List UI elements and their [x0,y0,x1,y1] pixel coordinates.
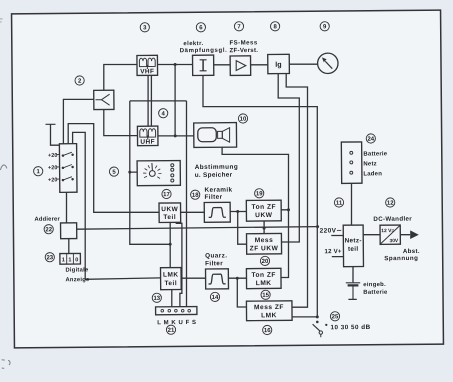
label 220V~ [320,227,343,234]
wire box2 to VHF tuner [104,109,138,136]
node UHF output junction [174,134,177,137]
wire ceramic filter to Ton ZF UKW [230,210,246,212]
label +20 step a [48,153,58,159]
station buttons box 21 [156,307,197,315]
svg-text:17: 17 [163,192,170,198]
attenuator switch S25 [313,321,328,338]
internal battery B1 [346,283,361,300]
UHF tuner box 4 [137,126,158,146]
Ton ZF UKW box 19 [246,200,281,221]
svg-text:elektr.: elektr. [183,41,203,47]
svg-text:Keramik: Keramik [204,187,232,194]
svg-text:23: 23 [46,255,53,261]
battery-netz-laden indicator box 24 [341,142,362,183]
node ceramic filter output junction [236,210,239,213]
switch bank S1 (box 1, +20dB steps) [56,144,77,193]
wire Ton ZF UKW to monitor bus [281,209,288,211]
label +20 step b [48,165,58,171]
svg-text:18: 18 [192,193,199,199]
svg-text:14: 14 [212,295,219,301]
svg-text:15: 15 [262,293,269,299]
wire Ton ZF UKW to Mess ZF UKW [263,221,265,234]
node label circle 19 [255,189,264,198]
label elektr. Daempfungsgl. [180,41,228,54]
wire box6 to amplifier box7 [214,64,231,66]
svg-text:19: 19 [256,191,263,197]
svg-text:FS-Mess: FS-Mess [229,39,257,46]
svg-text:ZF-Verst.: ZF-Verst. [229,47,258,54]
svg-text:Laden: Laden [363,171,382,177]
wire UKW-Teil to ceramic filter [181,211,205,213]
node Ton ZF UKW monitor junction [287,208,290,211]
label Laden [363,171,382,177]
svg-text:25: 25 [332,314,339,320]
node label circle 6 [196,23,205,32]
wire tuning branch horizontal [130,99,187,102]
wire scan artifact top left mark [0,19,3,22]
node label circle 22 [44,225,53,234]
svg-text:+20: +20 [48,165,58,171]
svg-text:12: 12 [387,201,394,207]
node label circle 3 [140,23,149,32]
svg-text:1: 1 [68,257,71,263]
Mess ZF LMK box 16 [246,301,292,321]
wire Addierer output long horizontal [77,227,318,230]
svg-text:LMK: LMK [163,272,179,279]
wire antenna stem to input box 1 [50,124,59,145]
wire long vertical to station buttons box21 [185,101,189,307]
node label circle 21 [166,325,175,334]
node label circle 5 [109,167,118,176]
svg-text:eingeb.: eingeb. [363,282,386,288]
wire LMK-Teil bottom to buttons box21 [171,290,173,307]
node label circle 13 [152,293,161,302]
label Keramik Filter [204,187,232,201]
wire UKW-Teil bottom to buttons box21 [176,222,182,306]
label Abstimmung u. Speicher [195,164,239,179]
wire VHF-UHF tuning link b [150,75,153,126]
label eingeb. Batterie [363,282,388,296]
wire Addierer to digital display [68,239,70,254]
wire VHF-UHF output link vertical [174,64,175,135]
wire battery-netz box24 to Netzteil [350,183,353,225]
wire box1 top loop to LMK-Teil input [72,132,160,280]
node label circle 23 [45,253,54,262]
svg-text:DC-Wandler: DC-Wandler [373,216,412,223]
svg-text:VHF: VHF [140,68,154,75]
svg-text:11: 11 [336,201,343,207]
svg-text:Filter: Filter [205,260,223,267]
Netzteil box 11 [343,225,363,267]
wire lg box8 to meter [289,63,317,65]
node label circle 4 [159,109,168,118]
node label circle 17 [162,189,171,198]
wire box1 bottom to Addierer [65,192,68,223]
monitor and speaker box 10 [194,123,237,148]
svg-text:30V: 30V [389,238,398,244]
node quartz filter output junction [236,277,239,280]
svg-text:Filter: Filter [204,194,222,201]
wire tuning branch to dial box5 and LMK chain [129,101,171,245]
node label circle 11 [334,198,343,207]
svg-text:lg: lg [275,60,281,69]
wire filter branch to Mess ZF LMK [237,278,246,307]
svg-text:Mess ZF: Mess ZF [254,304,284,311]
wire 220V input to Netzteil [331,234,343,236]
log amplifier box 8 (lg) [268,54,290,73]
node dial box5 junction [128,171,131,174]
svg-text:UKW: UKW [161,206,178,213]
node Addierer line end junction [316,225,319,228]
wire Netzteil to internal battery [352,267,354,283]
svg-text:10 30 50 dB: 10 30 50 dB [330,324,370,331]
label DC-Wandler [373,216,412,223]
node label circle 1 [34,167,43,176]
svg-text:u. Speicher: u. Speicher [195,172,233,179]
wire stub to dial box5 [130,171,137,173]
digital display box 23 [60,253,81,264]
wire lg box8 to Mess ZF LMK [286,73,309,307]
wire Netzteil to DC-Wandler [363,234,380,236]
svg-text:UHF: UHF [140,139,155,146]
wire scan artifact bottom left mark [2,360,11,369]
svg-text:Dämpfungsgl.: Dämpfungsgl. [180,48,228,54]
label 12V+ [324,248,341,255]
node label circle 15 [261,290,270,299]
svg-text:16: 16 [264,328,271,334]
svg-text:Teil: Teil [164,280,177,287]
svg-text:LMK: LMK [256,280,272,287]
node label circle 18 [191,190,200,199]
svg-text:Netz-: Netz- [345,237,362,244]
ceramic filter box 18 [204,202,230,222]
svg-text:12 V=: 12 V= [381,228,394,234]
svg-text:L M K U F S: L M K U F S [157,320,196,326]
label Batterie [363,151,387,157]
svg-text:0: 0 [75,257,78,263]
label Quarz Filter [205,252,227,267]
svg-text:Batterie: Batterie [363,151,387,157]
node Addierer line junction [263,227,266,230]
svg-text:1: 1 [62,257,65,263]
node label circle 2 [75,76,84,85]
wire LMK-Teil to quartz filter [181,277,206,279]
VHF tuner box 3 [137,55,158,75]
node tuning line junction [169,243,172,246]
wire box2 to UHF tuner [104,64,138,90]
svg-text:teil: teil [348,246,358,253]
quartz filter box 14 [206,269,229,289]
electronic attenuator box 6 [193,55,214,75]
svg-text:Ton ZF: Ton ZF [251,272,276,279]
node label circle 16 [263,325,272,334]
wire box6 control to attenuator switch [203,74,319,317]
svg-text:+20: +20 [48,153,58,159]
svg-text:Addierer: Addierer [34,217,60,223]
node attenuator switch junction [316,315,319,318]
wire VHF output to attenuator box6 [157,63,192,66]
svg-text:Netz: Netz [363,161,377,167]
Mess ZF UKW box 20 [247,233,282,254]
wire UHF output to monitor box10 [158,135,194,138]
DC-Wandler box 12 [380,225,401,244]
svg-text:Abstimmung: Abstimmung [195,164,239,171]
label Abst. Spannung [384,248,420,262]
output arrow of DC-Wandler [410,230,419,239]
label Netz [363,161,377,167]
node label circle 8 [270,22,279,31]
wire box1 top loop to UKW-Teil input [68,123,159,213]
svg-text:220V∼: 220V∼ [320,227,343,234]
svg-text:UKW: UKW [255,212,273,219]
svg-text:Teil: Teil [163,214,176,221]
wire Mess ZF LMK to switch node [292,316,317,318]
svg-text:Quarz.: Quarz. [205,252,227,259]
splitter box 2 [94,90,114,109]
wire filter branch to Mess ZF UKW [237,211,246,244]
svg-text:12 V+: 12 V+ [324,248,341,255]
svg-text:+20: +20 [48,177,58,183]
svg-text:22: 22 [45,227,52,233]
svg-text:Anzeige: Anzeige [65,277,90,283]
meter M9 [318,53,339,74]
Addierer box 22 [61,223,77,239]
svg-text:ZF UKW: ZF UKW [250,245,279,252]
node label circle 7 [234,22,243,31]
label FS-Mess ZF-Verst. [229,39,258,54]
label +20 step c [48,177,58,183]
node label circle 12 [386,198,395,207]
node label circle 24 [366,134,375,143]
label Digitale Anzeige [65,267,90,283]
wire scan artifact arc left [0,165,7,170]
svg-text:10: 10 [240,117,247,123]
svg-text:Mess: Mess [255,237,274,244]
svg-text:Batterie: Batterie [363,290,388,296]
svg-text:13: 13 [153,296,160,302]
node label circle 9 [320,22,329,31]
label 10 30 50 dB [330,324,370,331]
FS-Mess ZF amplifier box 7 [230,56,251,76]
label LMKUFS [157,320,196,326]
wire UKW-Teil to LMK-Teil link [169,222,172,267]
svg-text:Ton ZF: Ton ZF [252,204,277,211]
svg-text:Digitale: Digitale [65,267,89,273]
wire 12V input to Netzteil [332,255,344,257]
UKW Teil box 17 [159,203,181,223]
svg-text:20: 20 [262,259,269,265]
wire DC-Wandler output [400,234,410,236]
node label circle 25 [330,312,339,321]
svg-text:21: 21 [168,328,175,334]
wire quartz filter to Ton ZF LMK [228,277,246,279]
node label circle 14 [210,292,219,301]
LMK Teil box 13 [161,268,182,290]
svg-text:24: 24 [367,137,374,143]
wire box2 splitter to attenuator box1 top [63,99,94,145]
tuning dial box 5 [137,161,180,186]
svg-text:Spannung: Spannung [384,255,418,262]
label Addierer [34,217,60,223]
node label circle 10 [238,114,247,123]
Ton ZF LMK box 15 [246,268,281,288]
wire monitor box10 to Ton ZF stages [222,147,290,278]
wire box7 to lg box8 [251,64,268,66]
svg-text:LMK: LMK [261,312,277,319]
node VHF output junction [174,63,177,66]
antenna [45,123,55,125]
wire lg box8 to Mess ZF UKW [278,73,301,242]
wire VHF-UHF tuning link a [147,75,150,126]
node label circle 20 [260,256,269,265]
